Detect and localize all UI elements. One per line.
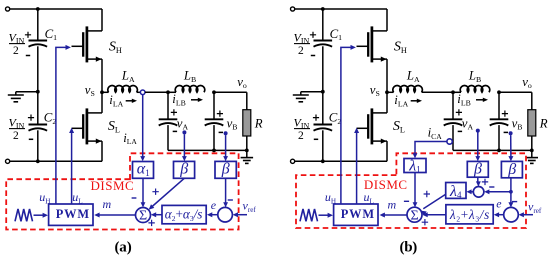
label vB fig a (217, 111, 238, 133)
label uL fig a (72, 190, 82, 205)
block lambda4 fig b (446, 183, 466, 201)
capacitor C2 fig a (28, 92, 56, 162)
block PWM fig a (49, 204, 93, 225)
label e fig a (211, 198, 217, 212)
sense point vB fig b (509, 131, 513, 135)
input terminal (+) fig a (6, 7, 103, 11)
sense point vB fig a (224, 131, 228, 135)
inductor LA fig b (387, 86, 422, 93)
wire alpha1 to sum fig a (132, 178, 146, 207)
wire vB line to small junction fig b (484, 187, 511, 194)
node midpoint fig a (36, 90, 40, 94)
node vB bottom fig b (497, 149, 501, 153)
filter bottom rail fig a (168, 149, 247, 151)
block beta1 fig b (467, 161, 488, 178)
wire error to alpha23 fig a (207, 212, 218, 217)
label VIN/2 lower fig b (294, 115, 311, 142)
sense wire vB to beta2 fig b (508, 135, 513, 161)
svg-text:e: e (211, 198, 217, 212)
error junction fig b (504, 207, 519, 222)
resistor R fig b (528, 92, 536, 150)
wire uL fig a (69, 128, 74, 204)
label iLA sense fig a (123, 131, 137, 146)
ground right fig a (241, 150, 254, 163)
wire vB to R fig a (214, 91, 247, 93)
resistor R fig a (243, 92, 251, 150)
svg-text:β: β (221, 160, 230, 177)
block alpha2+alpha3/s fig a (162, 205, 206, 223)
label iCA fig b (428, 125, 443, 140)
wire alpha23 to sum fig a (151, 212, 162, 217)
ground right fig b (526, 150, 539, 163)
label uH fig b (325, 190, 336, 205)
svg-text:Σ: Σ (411, 209, 419, 224)
DISMC boundary fig a (6, 153, 238, 229)
label uL fig b (364, 190, 374, 205)
label plus from alpha23 fig a (148, 220, 154, 226)
label e fig b (496, 197, 502, 211)
sense wire vA to beta1 fig b (475, 129, 480, 162)
label LA fig a (121, 69, 135, 84)
wire beta1 to small junction fig b (476, 177, 488, 186)
svg-text:DISMC: DISMC (91, 178, 135, 193)
caption (a) (115, 239, 132, 255)
label iLA fig b (394, 93, 422, 108)
node R bottom fig b (530, 149, 534, 153)
label m fig a (103, 197, 112, 211)
wire lambda23 to sum fig b (422, 212, 446, 217)
svg-text:β: β (473, 161, 482, 178)
node vA junction fig a (166, 90, 170, 94)
label LB fig b (468, 69, 481, 84)
wire iLA sense fig a (140, 95, 145, 162)
ground left fig b (293, 92, 323, 102)
capacitor vB fig b (490, 92, 509, 150)
svg-text:): ) (412, 239, 417, 255)
svg-text:R: R (539, 116, 548, 130)
wire m fig b (380, 213, 408, 218)
transistor SH fig b (357, 9, 388, 92)
capacitor C1 fig b (310, 9, 342, 92)
label DISMC fig b (364, 177, 408, 192)
svg-text:): ) (127, 239, 132, 255)
inductor LB fig b (453, 86, 490, 93)
wire uL fig b (354, 128, 359, 204)
ground left fig a (8, 92, 38, 102)
wire vref fig a (233, 212, 247, 217)
node iCA sense fig b (447, 139, 452, 144)
label LA fig b (406, 69, 420, 84)
node vA junction fig b (451, 90, 455, 94)
label VIN/2 upper fig a (9, 30, 26, 57)
label iLB fig b (457, 92, 488, 107)
svg-text:β: β (179, 160, 188, 177)
summing junction fig a (136, 208, 151, 224)
inductor LB fig a (168, 86, 205, 93)
vA error junction fig b (473, 187, 484, 198)
label SH fig b (394, 40, 407, 55)
svg-text:m: m (103, 197, 112, 211)
label SH fig a (109, 40, 122, 55)
DISMC boundary fig b (296, 153, 526, 228)
node vS fig b (370, 83, 389, 98)
label LB fig a (183, 69, 196, 84)
label R fig a (254, 116, 263, 130)
input terminal (+) fig b (291, 7, 388, 11)
label vref fig a (243, 199, 257, 214)
wire beta1 to sum fig a (149, 178, 185, 209)
label vref fig b (528, 199, 542, 214)
label VIN/2 upper fig b (294, 30, 311, 57)
label SL fig b (393, 119, 405, 134)
label R fig b (539, 116, 548, 130)
svg-text:β: β (507, 161, 516, 178)
error junction fig a (218, 207, 233, 222)
svg-text:R: R (254, 116, 263, 130)
sense point vA fig a (182, 130, 186, 134)
label vB fig b (502, 111, 523, 133)
wire LA to vA node fig b (422, 91, 453, 93)
svg-text:2: 2 (13, 45, 19, 57)
block lambda2+lambda3/s fig b (446, 205, 493, 224)
node vS fig a (85, 83, 104, 98)
svg-text:α2+α3/s: α2+α3/s (165, 207, 203, 223)
capacitor vB fig a (205, 92, 224, 150)
node R bottom fig a (245, 149, 249, 153)
wire error to lambda23 fig b (494, 212, 504, 217)
transistor SL fig b (357, 92, 388, 161)
svg-text:2: 2 (298, 130, 304, 142)
block PWM fig b (334, 204, 378, 225)
label vA fig b (456, 109, 474, 131)
node C2 bottom fig a (36, 159, 40, 163)
svg-text:2: 2 (13, 130, 19, 142)
label m fig b (388, 197, 397, 211)
svg-text:DISMC: DISMC (364, 177, 408, 192)
block lambda1 fig b (404, 157, 426, 174)
wire m fig a (94, 213, 135, 218)
label SL fig a (108, 119, 120, 134)
capacitor vA fig b (444, 92, 463, 150)
node vB junction fig a (212, 90, 216, 94)
input terminal (-) fig b (291, 159, 388, 163)
node C1 top fig a (36, 7, 40, 11)
node C1 top fig b (321, 7, 325, 11)
sawtooth carrier fig a (15, 209, 48, 221)
label VIN/2 lower fig a (9, 115, 26, 142)
wire lambda4 to sum fig b (421, 191, 446, 216)
label vo fig a (237, 75, 247, 90)
wire vB to R fig b (499, 91, 532, 93)
svg-text:e: e (496, 197, 502, 211)
svg-text:PWM: PWM (341, 207, 375, 221)
node on beta2 output fig b (509, 190, 513, 194)
wire vB to beta2 fig a (223, 135, 228, 161)
wire uH fig a (56, 45, 71, 204)
sawtooth carrier fig b (300, 209, 333, 221)
node C2 bottom fig b (321, 159, 325, 163)
transistor SH fig a (72, 9, 103, 92)
svg-text:Σ: Σ (139, 209, 147, 224)
block beta1 fig a (174, 160, 195, 178)
wire vref fig b (519, 212, 534, 217)
block beta2 fig b (501, 161, 522, 178)
wire iCA fig b (413, 142, 447, 159)
wire uH fig b (341, 45, 356, 204)
label iLB fig a (172, 92, 203, 107)
svg-text:λ2+λ3/s: λ2+λ3/s (449, 207, 490, 223)
wire beta2 to error junction fig a (223, 178, 233, 207)
wire small junction to lambda4 fig b (466, 189, 473, 194)
node midpoint fig b (321, 90, 325, 94)
summing junction fig b (407, 207, 422, 223)
svg-text:2: 2 (298, 45, 304, 57)
inductor LA fig a (102, 86, 137, 93)
label vo fig b (522, 75, 532, 90)
block beta2 fig a (215, 160, 236, 178)
wire beta2 to error junction fig b (508, 178, 517, 208)
wire vA to beta1 fig a (182, 134, 187, 161)
caption (b) (400, 239, 418, 255)
capacitor C2 fig b (313, 92, 341, 162)
wire lambda1 to sum fig b (404, 173, 418, 208)
transistor SL fig a (72, 92, 103, 161)
block alpha1 fig a (133, 161, 154, 179)
node vB bottom fig a (212, 149, 216, 153)
svg-text:PWM: PWM (56, 207, 90, 221)
label vA fig a (171, 109, 189, 131)
node A (iLA sense) fig a (137, 90, 168, 95)
capacitor C1 fig a (25, 9, 57, 92)
input terminal (-) fig a (6, 159, 103, 163)
node vB junction fig b (497, 90, 501, 94)
label iLA fig a (109, 93, 137, 108)
label plus from lambda23 fig b (422, 219, 428, 225)
label DISMC fig a (91, 178, 135, 193)
capacitor vA fig a (159, 92, 178, 150)
svg-text:m: m (388, 197, 397, 211)
label uH fig a (39, 190, 50, 205)
filter bottom rail fig b (453, 149, 532, 151)
